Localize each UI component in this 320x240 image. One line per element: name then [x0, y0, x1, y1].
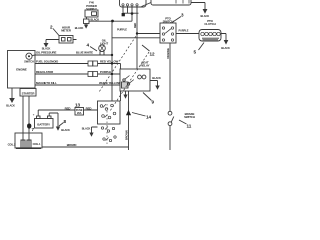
svg-text:2: 2	[50, 25, 53, 30]
svg-text:ENGINE: ENGINE	[16, 68, 27, 72]
svg-text:3: 3	[181, 13, 184, 18]
svg-text:COIL.2: COIL.2	[8, 143, 16, 147]
svg-text:PURPLE: PURPLE	[117, 28, 127, 32]
svg-text:SWITCH: SWITCH	[184, 115, 195, 119]
svg-text:BLACK: BLACK	[82, 127, 91, 131]
svg-text:SWITCH: SWITCH	[24, 59, 34, 63]
svg-text:PURPLE: PURPLE	[179, 29, 189, 33]
svg-text:BATTERY: BATTERY	[37, 122, 50, 126]
svg-text:ORANGE: ORANGE	[166, 48, 170, 59]
svg-text:4: 4	[87, 43, 90, 48]
svg-text:MAGNETO KILL: MAGNETO KILL	[36, 81, 57, 85]
svg-text:9: 9	[152, 100, 155, 105]
svg-text:BROWN: BROWN	[67, 143, 77, 147]
svg-text:BLACK: BLACK	[6, 104, 15, 108]
svg-text:RED YELLOW: RED YELLOW	[100, 59, 119, 63]
svg-text:BLACK: BLACK	[91, 18, 100, 22]
svg-text:14: 14	[146, 115, 152, 120]
svg-text:RED: RED	[133, 23, 137, 28]
svg-text:RED: RED	[65, 106, 71, 110]
svg-text:11: 11	[187, 123, 192, 128]
svg-text:BLACK: BLACK	[221, 46, 230, 50]
svg-text:CLUTCH: CLUTCH	[204, 22, 215, 26]
svg-text:LIGHT: LIGHT	[100, 41, 109, 45]
svg-text:REGULATOR: REGULATOR	[36, 70, 54, 74]
svg-text:BLUE WHITE: BLUE WHITE	[76, 50, 93, 54]
svg-text:SUPPLY: SUPPLY	[86, 7, 97, 11]
svg-text:WHITE YELLOW: WHITE YELLOW	[99, 81, 121, 85]
svg-text:13: 13	[75, 103, 81, 108]
svg-text:RED: RED	[86, 106, 92, 110]
svg-text:BLACK: BLACK	[75, 26, 84, 30]
svg-text:SWITCH: SWITCH	[163, 20, 174, 24]
svg-text:STARTER: STARTER	[22, 91, 36, 95]
svg-text:8: 8	[64, 119, 67, 124]
svg-text:METER: METER	[61, 29, 72, 33]
svg-text:BLACK: BLACK	[152, 76, 161, 80]
svg-text:BROWN: BROWN	[125, 130, 129, 140]
svg-text:BLACK: BLACK	[61, 128, 70, 132]
svg-text:12: 12	[150, 52, 156, 57]
svg-text:FUEL SOLENOID: FUEL SOLENOID	[36, 59, 58, 63]
svg-text:COIL.1: COIL.1	[33, 142, 41, 146]
svg-text:BLACK: BLACK	[201, 14, 210, 18]
svg-text:PURPLE: PURPLE	[100, 70, 111, 74]
svg-text:20A: 20A	[77, 111, 82, 115]
svg-text:5: 5	[194, 50, 197, 55]
svg-text:7: 7	[32, 127, 35, 132]
svg-text:OIL PRESSURE: OIL PRESSURE	[36, 50, 56, 54]
svg-text:RELAY: RELAY	[140, 64, 149, 68]
